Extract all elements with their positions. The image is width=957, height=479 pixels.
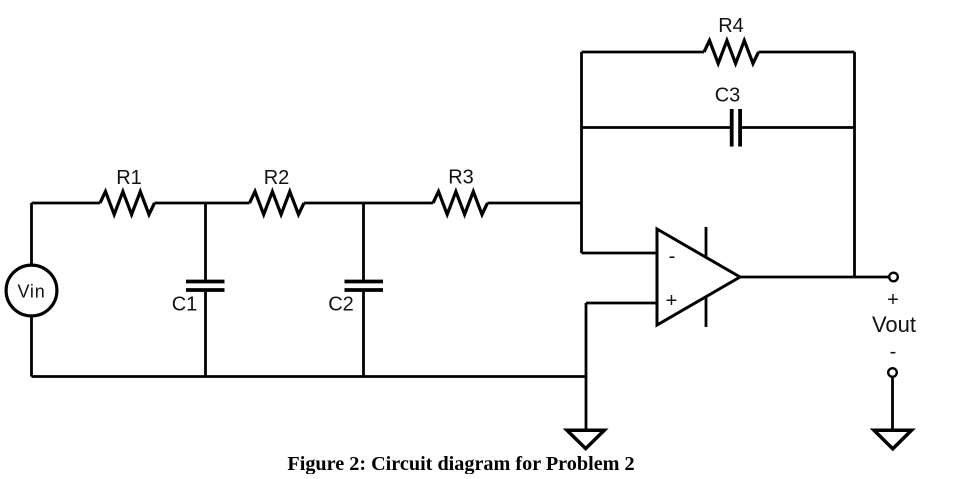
op-amp negative supply pin [705, 297, 708, 328]
wire: feedback right vertical to output [853, 52, 856, 277]
wire: C3 feedback right segment [742, 126, 855, 129]
wire: bottom rail [32, 375, 587, 378]
capacitor C1 [172, 203, 225, 377]
wire: top rail Vin to R1 [32, 202, 101, 205]
node: output terminal (open circle) [889, 273, 898, 282]
node label: Vout plus [887, 289, 899, 311]
wire: op-amp output [740, 276, 888, 279]
svg-text:+: + [887, 289, 899, 311]
ground (output) [874, 430, 912, 449]
node: lower output terminal (open circle) [888, 368, 897, 377]
wire: lower terminal to ground [891, 378, 894, 430]
op-amp U1 [657, 229, 740, 325]
svg-text:Vin: Vin [17, 282, 45, 302]
capacitor C2 [328, 203, 383, 377]
wire: R3 to inverting node [488, 202, 582, 205]
op-amp positive supply pin [705, 227, 708, 258]
svg-text:R3: R3 [448, 167, 474, 189]
capacitor C3 [715, 85, 741, 147]
svg-text:R2: R2 [264, 167, 290, 189]
wire: C3 feedback left segment [582, 126, 731, 129]
svg-text:R1: R1 [116, 167, 142, 189]
wire: non-inverting input to ground [585, 303, 588, 430]
wire: feedback node vertical (inverting input node) [580, 52, 583, 253]
caption: Figure 2 [287, 453, 634, 475]
svg-text:C2: C2 [328, 294, 354, 316]
wire: non-inverting input [586, 302, 657, 305]
wire: R4 feedback left segment [582, 51, 705, 54]
node label: Vout [872, 312, 916, 337]
svg-text:C1: C1 [172, 294, 198, 316]
wire: R4 feedback right segment [759, 51, 855, 54]
resistor R4 [704, 15, 759, 64]
node label: Vout minus [890, 341, 897, 363]
svg-text:-: - [890, 341, 897, 363]
svg-text:-: - [669, 246, 676, 268]
resistor R3 [433, 167, 488, 215]
resistor R1 [100, 167, 155, 215]
svg-text:Vout: Vout [872, 312, 916, 337]
svg-text:+: + [666, 290, 678, 312]
svg-text:C3: C3 [715, 85, 741, 107]
svg-text:R4: R4 [718, 15, 744, 37]
wire: R1 to R2 (node with C1) [155, 202, 250, 205]
resistor R2 [250, 167, 305, 215]
ground (non-inverting input) [567, 430, 604, 448]
wire: inverting input [582, 252, 658, 255]
svg-text:Figure 2: Circuit diagram for: Figure 2: Circuit diagram for Problem 2 [287, 453, 634, 474]
source Vin [6, 203, 57, 377]
wire: R2 to R3 (node with C2) [304, 202, 433, 205]
